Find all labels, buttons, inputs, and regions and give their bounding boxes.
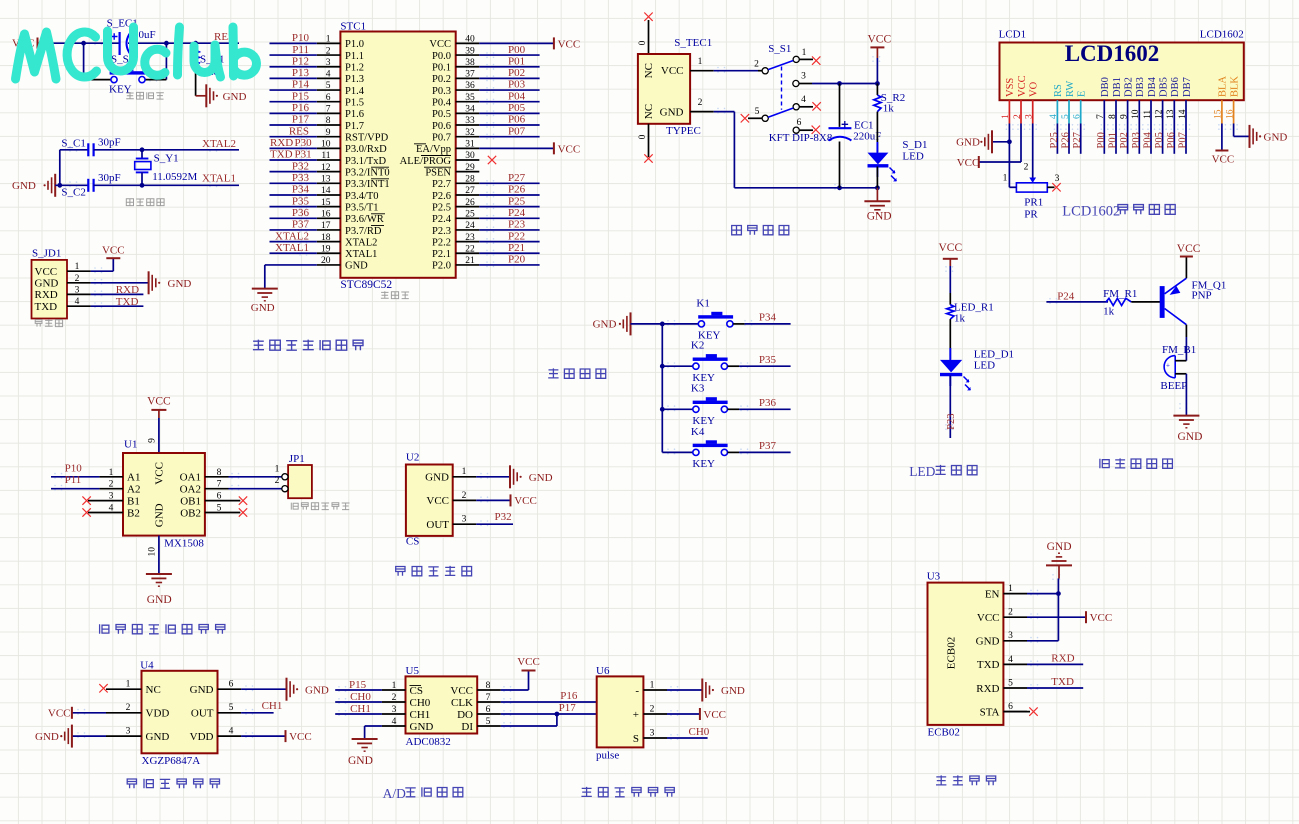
push button K3 KEY xyxy=(662,383,790,427)
svg-text:KFT DIP-8X8: KFT DIP-8X8 xyxy=(769,132,833,144)
wire/net label P35 (MCU left pin) xyxy=(270,206,317,208)
wire LCD pin3 VO to PR1 wiper xyxy=(1032,124,1034,169)
buzzer FM_B1 BEEP xyxy=(1160,344,1196,392)
svg-text:2: 2 xyxy=(275,476,280,486)
svg-text:DB5: DB5 xyxy=(1158,77,1169,97)
svg-text:P16: P16 xyxy=(560,690,578,702)
pin 17 P3.7/RD xyxy=(317,229,341,231)
svg-text:OA2: OA2 xyxy=(180,484,201,496)
svg-text:DB2: DB2 xyxy=(1123,77,1134,97)
svg-text:GND: GND xyxy=(35,278,59,290)
svg-text:36: 36 xyxy=(465,81,475,91)
wire S_R1 to GND xyxy=(196,95,207,97)
svg-text:TXD: TXD xyxy=(35,301,58,313)
no-connect X (S_S1 pin1) xyxy=(812,56,820,64)
svg-text:P21: P21 xyxy=(508,242,525,254)
svg-text:19: 19 xyxy=(321,244,331,254)
wire/net label P27 (MCU right) xyxy=(479,182,539,184)
svg-text:ADC0832: ADC0832 xyxy=(406,736,451,748)
svg-text:9: 9 xyxy=(147,438,157,443)
svg-text:0: 0 xyxy=(638,134,648,139)
svg-text:1: 1 xyxy=(1003,174,1008,184)
svg-text:P02: P02 xyxy=(1119,132,1130,148)
svg-text:5: 5 xyxy=(755,107,760,117)
svg-text:K4: K4 xyxy=(691,426,705,438)
svg-text:13: 13 xyxy=(321,175,331,185)
pin 27 P2.6 xyxy=(456,194,480,196)
svg-text:1: 1 xyxy=(462,467,467,477)
wire/net label P01 (MCU right) xyxy=(479,66,539,68)
wire/net label P24 (MCU right) xyxy=(479,217,539,219)
svg-text:BLK: BLK xyxy=(1229,76,1240,97)
svg-text:P3.2/INT0: P3.2/INT0 xyxy=(345,167,390,178)
wire VCC down xyxy=(876,58,878,84)
pin 8 P1.7 xyxy=(317,124,341,126)
svg-text:4: 4 xyxy=(801,95,806,105)
svg-text:TXD: TXD xyxy=(977,659,1000,671)
wire/net label P23 (MCU right) xyxy=(479,229,539,231)
pin 6 P1.5 xyxy=(317,101,341,103)
ground GND (motor) xyxy=(146,574,172,606)
wire/net label P06 (MCU right) xyxy=(479,124,539,126)
pin 26 P2.5 xyxy=(456,206,480,208)
svg-text:1: 1 xyxy=(802,48,807,58)
pin 13 P3.3/INT1 xyxy=(317,182,341,184)
wire/net label P21 (MCU right) xyxy=(479,252,539,254)
pin 4 P1.3 xyxy=(317,77,341,79)
svg-text:VCC: VCC xyxy=(289,731,312,743)
svg-text:30: 30 xyxy=(465,151,475,161)
svg-text:DO: DO xyxy=(457,709,473,721)
svg-text:1: 1 xyxy=(698,57,703,67)
wire XTAL1 net xyxy=(94,184,239,186)
svg-text:CH1: CH1 xyxy=(410,709,431,721)
stub TYPEC bottom pin 0 xyxy=(648,124,650,157)
wire down-left of key S_S2 xyxy=(83,43,85,79)
svg-text:2: 2 xyxy=(326,46,331,56)
wire XTAL2 net xyxy=(94,149,239,151)
power port VCC (power circuit) xyxy=(868,34,892,59)
svg-text:27: 27 xyxy=(465,186,475,196)
wire/net label P25 (MCU right) xyxy=(479,206,539,208)
stub U4 pin1 NC xyxy=(106,688,142,690)
svg-text:2: 2 xyxy=(650,704,655,714)
svg-text:GND: GND xyxy=(956,137,980,149)
wire LCD pin1 VSS to GND and PR1 xyxy=(1008,124,1010,188)
transistor FM_Q1 PNP xyxy=(1160,257,1227,325)
svg-text:12: 12 xyxy=(321,163,331,173)
svg-text:DB4: DB4 xyxy=(1147,76,1158,97)
junction xyxy=(555,712,560,717)
power ground GND (reset circuit) xyxy=(206,84,246,107)
svg-text:VCC: VCC xyxy=(514,495,537,507)
svg-text:BEEP: BEEP xyxy=(1160,380,1187,392)
wire/net label P25 (LCD pin 4) xyxy=(1056,124,1058,154)
svg-text:ECB02: ECB02 xyxy=(946,637,958,669)
power port VCC (U3) xyxy=(1086,611,1112,624)
svg-text:GND: GND xyxy=(147,594,172,606)
svg-text:P1.2: P1.2 xyxy=(345,63,364,74)
svg-text:1k: 1k xyxy=(1103,306,1115,318)
svg-text:VCC: VCC xyxy=(558,143,581,155)
svg-text:LCD1602: LCD1602 xyxy=(1200,29,1244,41)
svg-text:P15: P15 xyxy=(292,90,310,102)
wire U4 pin4 to VCC xyxy=(218,735,242,737)
svg-text:15: 15 xyxy=(321,198,331,208)
section title 胎压检测模块 xyxy=(127,779,136,788)
connector S_JD1 下载口 xyxy=(32,247,91,318)
svg-text:VO: VO xyxy=(1029,81,1040,97)
wire/net label P37 (MCU left pin) xyxy=(270,229,317,231)
svg-text:KEY: KEY xyxy=(109,84,132,96)
wire cap to RES net xyxy=(128,42,239,44)
no-connect X (U1 pin4) xyxy=(82,508,90,516)
svg-text:-: - xyxy=(635,685,639,697)
svg-text:P05: P05 xyxy=(508,102,526,114)
wire/net label P17 (MCU left pin) xyxy=(270,124,317,126)
svg-text:P2.4: P2.4 xyxy=(432,214,452,225)
svg-text:TXD: TXD xyxy=(116,296,139,308)
pin 10 P3.0/RxD xyxy=(317,147,341,149)
wire LCD pin15 BLA to VCC xyxy=(1221,124,1223,151)
resistor S_R2 1k xyxy=(874,84,905,153)
wire/net label P33 (MCU left pin) xyxy=(270,182,317,184)
svg-text:DB0: DB0 xyxy=(1100,77,1111,97)
svg-text:P25: P25 xyxy=(508,195,526,207)
wire U4 pin3 to GND xyxy=(72,735,106,737)
wire U2 pin3 P32 xyxy=(476,523,513,525)
wire P24 to FM_R1 xyxy=(1046,301,1108,303)
svg-text:GND: GND xyxy=(721,685,745,697)
svg-text:P26: P26 xyxy=(508,184,526,196)
svg-text:NC: NC xyxy=(643,104,655,119)
no-connect X (S_S1 pin6) xyxy=(812,126,820,134)
power port VCC (LCD left) xyxy=(957,156,980,169)
svg-text:2: 2 xyxy=(126,703,131,713)
resistor S_R1 10k xyxy=(192,43,224,96)
no-connect X (S_S1 pin4) xyxy=(812,102,820,110)
pin 39 P0.0 xyxy=(456,54,480,56)
gray annotation 单片机 xyxy=(381,291,389,298)
power port VCC (download) xyxy=(102,244,125,258)
pin 24 P2.3 xyxy=(456,229,480,231)
svg-text:XTAL1: XTAL1 xyxy=(345,249,377,260)
resistor LED_R1 1k xyxy=(947,301,994,324)
svg-text:P27: P27 xyxy=(1072,132,1083,148)
no-connect X pin30 xyxy=(488,156,496,164)
svg-text:NC: NC xyxy=(146,684,161,696)
pin 20 GND xyxy=(317,264,341,266)
wire/net label P36 (MCU left pin) xyxy=(270,217,317,219)
wire pin1 to VCC xyxy=(91,270,114,272)
svg-text:XTAL2: XTAL2 xyxy=(345,237,377,248)
svg-text:1k: 1k xyxy=(883,102,895,114)
svg-text:DB1: DB1 xyxy=(1112,77,1123,97)
wire/net label P00 (LCD pin 7) xyxy=(1103,124,1105,154)
svg-text:U2: U2 xyxy=(406,451,419,463)
pin 12 P3.2/INT0 xyxy=(317,171,341,173)
svg-text:GND: GND xyxy=(251,302,275,314)
wire/net label P05 (LCD pin 12) xyxy=(1162,124,1164,154)
wire/net label P11 (MCU left pin) xyxy=(270,54,317,56)
svg-text:K2: K2 xyxy=(691,340,704,352)
wire U1 pin7 to JP1 pin2 xyxy=(229,488,282,490)
svg-text:XTAL1: XTAL1 xyxy=(275,242,309,254)
pin 21 P2.0 xyxy=(456,264,480,266)
ground GND (U5) xyxy=(348,739,378,767)
svg-text:S_C2: S_C2 xyxy=(61,187,85,199)
svg-text:P37: P37 xyxy=(292,219,310,231)
svg-text:P3.1/TxD: P3.1/TxD xyxy=(345,156,387,167)
svg-text:P3.6/WR: P3.6/WR xyxy=(345,214,384,225)
wire/net label P22 (MCU right) xyxy=(479,241,539,243)
section title 直流电机驱动模块 xyxy=(100,624,109,634)
svg-text:P04: P04 xyxy=(1143,131,1154,148)
svg-text:P0.2: P0.2 xyxy=(432,74,451,85)
svg-text:9: 9 xyxy=(326,128,331,138)
svg-text:DB6: DB6 xyxy=(1170,77,1181,97)
svg-text:P15: P15 xyxy=(349,679,367,691)
svg-text:VCC: VCC xyxy=(154,462,166,485)
svg-text:34: 34 xyxy=(465,105,475,115)
svg-text:P00: P00 xyxy=(508,44,526,56)
wire/net CH0 (U5 pin2) xyxy=(335,701,382,703)
pin 38 P0.1 xyxy=(456,66,480,68)
no-connect X (U4 pin1) xyxy=(99,684,107,692)
svg-text:VSS: VSS xyxy=(1005,78,1016,97)
junction xyxy=(660,322,665,327)
svg-text:40: 40 xyxy=(465,35,475,45)
wire U3 pin3 GND xyxy=(1027,640,1058,642)
svg-text:P30: P30 xyxy=(295,137,313,149)
svg-text:B1: B1 xyxy=(127,495,140,507)
capacitor S_EC1 10uF xyxy=(107,18,156,56)
svg-text:GND: GND xyxy=(168,278,192,290)
pin 9 RST/VPD xyxy=(317,136,341,138)
svg-text:P17: P17 xyxy=(559,702,577,714)
svg-text:VDD: VDD xyxy=(190,731,214,743)
wire U4 pin2 to VCC xyxy=(72,712,106,714)
wire U6 pin1 to GND xyxy=(667,689,702,691)
wire/net label XTAL2 (MCU left pin) xyxy=(270,241,317,243)
bluetooth module U3 ECB02 xyxy=(927,570,1027,725)
sensor U6 pulse xyxy=(596,665,667,748)
svg-text:BLA: BLA xyxy=(1218,76,1229,97)
svg-text:2: 2 xyxy=(75,274,80,284)
pin 30 ALE/PROG xyxy=(456,159,480,161)
wire/net label P02 (LCD pin 9) xyxy=(1127,124,1129,154)
svg-text:P2.3: P2.3 xyxy=(432,226,451,237)
no-connect X (U1 pin6) xyxy=(239,496,247,504)
svg-text:P20: P20 xyxy=(508,254,526,266)
power ground GND (U4 right) xyxy=(287,678,329,701)
svg-text:EA/Vpp: EA/Vpp xyxy=(416,144,451,155)
svg-text:XTAL2: XTAL2 xyxy=(202,138,236,150)
pin 29 PSEN xyxy=(456,171,480,173)
svg-text:P1.6: P1.6 xyxy=(345,109,364,120)
svg-text:OB1: OB1 xyxy=(180,495,201,507)
svg-text:1: 1 xyxy=(275,464,280,474)
wire/net label P00 (MCU right) xyxy=(479,54,539,56)
svg-text:CH0: CH0 xyxy=(410,697,431,709)
junction xyxy=(57,183,62,188)
svg-text:P32: P32 xyxy=(292,160,309,172)
svg-text:GND: GND xyxy=(425,472,449,484)
power port VCC (U2) xyxy=(511,494,537,507)
svg-text:P2.5: P2.5 xyxy=(432,202,451,213)
wire U2 pin1 to GND xyxy=(476,476,510,478)
svg-text:GND: GND xyxy=(190,684,214,696)
wire/net label XTAL1 (MCU left pin) xyxy=(270,252,317,254)
svg-text:VCC: VCC xyxy=(1090,612,1113,624)
LED LED_D1 xyxy=(940,348,1014,390)
gray annotation 直流电机插座 xyxy=(291,503,298,510)
wire/net P10 (U1 pin1) xyxy=(51,476,99,478)
svg-text:P1.0: P1.0 xyxy=(345,39,364,50)
gray annotation 晶振电路 xyxy=(126,199,133,206)
svg-text:P07: P07 xyxy=(508,125,526,137)
no-connect X (U3 pin6) xyxy=(1029,707,1037,715)
svg-text:P1.7: P1.7 xyxy=(345,121,364,132)
svg-text:30pF: 30pF xyxy=(98,172,121,184)
svg-text:S_D1: S_D1 xyxy=(902,139,927,151)
svg-text:P05: P05 xyxy=(1154,132,1165,148)
junction xyxy=(875,81,880,86)
ground GND (bluetooth top) xyxy=(1046,541,1072,565)
svg-text:2: 2 xyxy=(698,98,703,108)
svg-text:P3.3/INT1: P3.3/INT1 xyxy=(345,179,390,190)
wire U1 pin8 to JP1 pin1 xyxy=(229,476,282,478)
svg-text:21: 21 xyxy=(465,256,475,266)
section title 测速传感器 xyxy=(396,567,405,576)
svg-text:DI: DI xyxy=(461,721,473,733)
svg-text:P23: P23 xyxy=(508,219,526,231)
svg-text:VCC: VCC xyxy=(957,157,980,169)
svg-text:GND: GND xyxy=(660,106,684,118)
no-connect X (TYPEC top) xyxy=(644,13,652,21)
connector JP1 motor socket xyxy=(282,453,312,498)
pin 7 P1.6 xyxy=(317,112,341,114)
svg-text:VCC: VCC xyxy=(703,709,726,721)
junction xyxy=(193,41,198,46)
svg-text:GND: GND xyxy=(12,180,36,192)
wire/net label RES (MCU left pin) xyxy=(270,136,317,138)
wire/net TXD (U3 pin5) xyxy=(1027,687,1083,689)
junction xyxy=(837,81,842,86)
svg-text:P22: P22 xyxy=(508,230,525,242)
capacitor S_C2 30pF xyxy=(61,172,120,199)
svg-text:0: 0 xyxy=(638,40,648,45)
wire U5 pin8 to VCC xyxy=(501,689,529,691)
svg-text:GND: GND xyxy=(1264,131,1288,143)
svg-text:6: 6 xyxy=(229,680,234,690)
svg-text:P26: P26 xyxy=(1061,132,1072,148)
svg-text:1: 1 xyxy=(326,35,331,45)
svg-text:P01: P01 xyxy=(1108,132,1119,148)
svg-text:P1.4: P1.4 xyxy=(345,86,365,97)
svg-text:LCD1: LCD1 xyxy=(999,29,1027,41)
wire/net CH1 (U5 pin3) xyxy=(335,713,382,715)
ground GND (power circuit) xyxy=(864,188,891,223)
svg-text:VCC: VCC xyxy=(426,495,449,507)
svg-text:1: 1 xyxy=(650,680,655,690)
svg-text:RXD: RXD xyxy=(35,289,58,301)
svg-text:U3: U3 xyxy=(927,570,941,582)
wire/net label P05 (MCU right) xyxy=(479,112,539,114)
wire collector to buzzer xyxy=(1185,325,1187,337)
svg-text:7: 7 xyxy=(326,105,331,115)
pin 37 P0.2 xyxy=(456,77,480,79)
svg-text:S_JD1: S_JD1 xyxy=(32,247,61,259)
svg-text:22: 22 xyxy=(465,244,475,254)
svg-text:VCC: VCC xyxy=(1177,243,1201,255)
capacitor EC1 220uF xyxy=(829,120,882,143)
svg-text:RST/VPD: RST/VPD xyxy=(345,132,389,143)
svg-text:VCC: VCC xyxy=(102,244,125,256)
svg-text:P00: P00 xyxy=(1096,132,1107,148)
svg-text:GND: GND xyxy=(223,91,247,103)
svg-text:P35: P35 xyxy=(759,354,777,366)
wire TYPEC pin2 GND path xyxy=(690,111,714,113)
svg-text:VCC: VCC xyxy=(450,685,473,697)
section title 单片机最小系统 xyxy=(253,340,264,351)
wire/net RXD (U3 pin4) xyxy=(1027,663,1083,665)
power ground GND (LCD right) xyxy=(1250,125,1288,148)
switch S_S1 KFT DIP-8X8 xyxy=(748,43,813,133)
svg-text:LED_R1: LED_R1 xyxy=(954,301,994,313)
svg-text:RXD: RXD xyxy=(1051,653,1074,665)
junction xyxy=(1056,591,1061,596)
svg-text:STA: STA xyxy=(980,706,1000,718)
svg-text:GND: GND xyxy=(976,636,1000,648)
wire/net label P27 (LCD pin 6) xyxy=(1080,124,1082,154)
junction xyxy=(140,147,145,152)
svg-text:OUT: OUT xyxy=(191,708,214,720)
junction at reset node xyxy=(81,41,86,46)
capacitor S_C1 30pF xyxy=(61,137,120,157)
svg-text:P23: P23 xyxy=(946,413,957,429)
pin 31 EA/Vpp xyxy=(456,147,480,149)
svg-text:P0.5: P0.5 xyxy=(432,109,451,120)
wire U3 pin2 to VCC xyxy=(1027,616,1086,618)
power port VCC (U6) xyxy=(700,708,726,721)
svg-text:OUT: OUT xyxy=(426,519,449,531)
wire GND to caps xyxy=(55,184,88,186)
svg-text:14: 14 xyxy=(321,186,331,196)
svg-text:CS: CS xyxy=(410,685,423,697)
svg-text:TXD: TXD xyxy=(1051,676,1074,688)
svg-text:5: 5 xyxy=(326,81,331,91)
wire to S_C1 xyxy=(60,149,88,151)
svg-text:DB7: DB7 xyxy=(1182,77,1193,97)
wire LED_R1 to LED_D1 xyxy=(949,319,951,359)
pin 15 P3.5/T1 xyxy=(317,206,341,208)
power port VCC (motor) xyxy=(147,396,171,419)
svg-text:3: 3 xyxy=(75,285,80,295)
svg-text:S_S1: S_S1 xyxy=(768,43,791,55)
push button K4 KEY xyxy=(662,426,790,470)
svg-text:FM_B1: FM_B1 xyxy=(1162,344,1196,356)
svg-text:P36: P36 xyxy=(292,207,310,219)
svg-text:OA1: OA1 xyxy=(180,472,201,484)
pin 1 P1.0 xyxy=(317,42,341,44)
wire GND down to EN/GND pins xyxy=(1058,565,1060,578)
svg-text:S_C1: S_C1 xyxy=(61,138,85,150)
LCD module LCD1 LCD1602 xyxy=(999,29,1244,101)
svg-text:U5: U5 xyxy=(406,665,420,677)
svg-text:26: 26 xyxy=(465,198,475,208)
svg-text:GND: GND xyxy=(410,721,434,733)
